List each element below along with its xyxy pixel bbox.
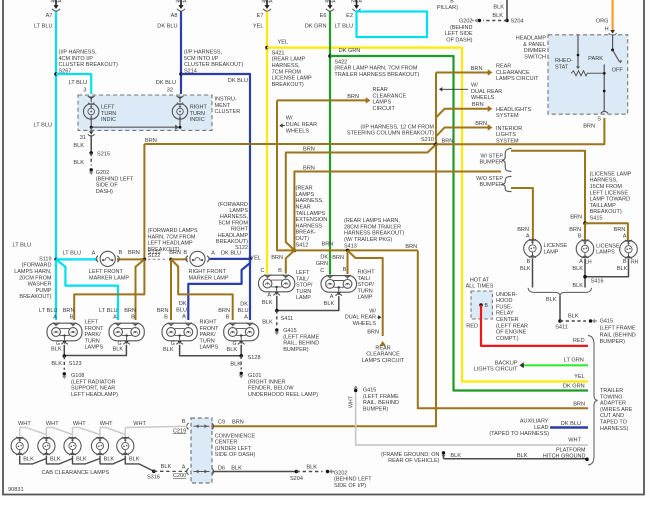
svg-text:A: A [113,315,117,321]
svg-text:LAMP TOWARD: LAMP TOWARD [590,197,630,203]
splice S215 [89,151,93,155]
svg-text:HARNESS: HARNESS [296,223,323,229]
svg-text:REAR: REAR [496,64,511,70]
svg-text:(LEFT REAR: (LEFT REAR [496,323,528,329]
svg-text:HOT AT: HOT AT [470,277,490,283]
svg-text:C219: C219 [173,428,186,434]
wire BRN S412 to left tail lamp pin B [286,250,295,273]
svg-text:LAMPS HARN,: LAMPS HARN, [14,269,52,275]
dashed BLK S204 to G202 [296,471,322,473]
svg-text:WHEELS: WHEELS [353,321,377,327]
svg-text:LEFT FRONT: LEFT FRONT [89,269,123,275]
top connector E2 (LT BLU feed) [356,0,358,6]
svg-text:PUMP: PUMP [36,288,52,294]
svg-text:DASH): DASH) [96,189,113,195]
rheostat riser [577,35,579,66]
svg-text:EXTENSION: EXTENSION [296,217,328,223]
svg-text:S316: S316 [147,475,160,481]
svg-text:BRN: BRN [367,330,379,336]
svg-text:HOOD: HOOD [496,298,513,304]
svg-text:BREAKOUT): BREAKOUT) [590,209,622,215]
svg-text:BUMPER): BUMPER) [363,406,389,412]
svg-text:RH: RH [631,260,639,266]
wire BRN interior lights branch [436,128,490,137]
svg-text:B: B [278,268,282,274]
svg-text:REAR: REAR [373,87,388,93]
svg-text:FENDER, BELOW: FENDER, BELOW [248,386,294,392]
ground G415 right (left frame rail behind bumper) [589,319,592,322]
svg-text:NEAR: NEAR [296,205,311,211]
svg-text:A: A [623,234,627,240]
svg-text:BLK: BLK [129,457,140,463]
top connector E7 (YEL feed) [266,0,268,6]
svg-text:BLK: BLK [450,453,461,459]
svg-text:HARNESS,: HARNESS, [590,178,619,184]
svg-text:RIGHT: RIGHT [358,270,376,276]
svg-text:CLEARANCE: CLEARANCE [366,352,400,358]
svg-text:(RIGHT INNER: (RIGHT INNER [248,379,286,385]
svg-text:W/O STEP: W/O STEP [476,176,503,182]
svg-text:BRN: BRN [303,147,315,153]
svg-text:RAIL, BEHIND: RAIL, BEHIND [363,400,399,406]
node DK BLU at marker row [248,257,252,261]
left front park/turn lamp 2 [109,323,144,341]
svg-text:AUXILIARY: AUXILIARY [520,419,549,425]
svg-text:B: B [485,303,489,309]
wire BRN down to S122 [143,144,145,259]
svg-text:(WIRES ARE: (WIRES ARE [600,407,633,413]
svg-text:B: B [182,419,186,425]
svg-text:BRN: BRN [475,121,487,127]
wire BLK license LH down to S416 [584,259,586,288]
splice S412 [293,249,297,253]
splice S123 [63,354,67,358]
wire WHT cab lamp feed chain [19,427,21,436]
svg-text:CENTER: CENTER [215,440,238,446]
trailer towing adapter brace [588,336,598,466]
svg-text:BRN: BRN [321,242,333,248]
wire BRN headlights system branch [436,109,490,118]
svg-text:BRN: BRN [613,227,625,233]
svg-text:E7: E7 [257,13,264,19]
svg-text:BRN: BRN [271,255,283,261]
wire LT BLU S119 down to left park lamp A [55,259,57,320]
condition arrow w/ dual rear wheels (left) [280,125,285,127]
svg-text:RIGHT FRONT: RIGHT FRONT [189,269,227,275]
svg-text:B: B [183,250,187,256]
splice S416 [583,275,587,279]
svg-text:B: B [131,315,135,321]
svg-text:NCA: NCA [176,0,187,5]
svg-text:LH: LH [585,259,592,265]
switch internal: feed from pin H [612,35,614,50]
ground G202 behind left side of I/P [326,470,329,473]
svg-text:INTERIOR: INTERIOR [496,126,522,132]
svg-text:BLK: BLK [493,5,504,11]
svg-text:4CM INTO I/P: 4CM INTO I/P [59,56,94,62]
svg-text:WASHER: WASHER [28,282,52,288]
svg-text:BRN: BRN [169,250,181,256]
svg-text:BRN: BRN [570,215,582,221]
svg-text:CIRCUIT: CIRCUIT [373,106,396,112]
svg-text:BLK: BLK [520,266,531,272]
svg-text:LT BLU: LT BLU [63,250,81,256]
svg-text:BLK: BLK [568,314,579,320]
svg-text:LICENSE: LICENSE [544,243,568,249]
svg-text:WHT: WHT [46,421,59,427]
svg-text:BRN: BRN [472,102,484,108]
svg-text:BRN: BRN [157,308,169,314]
svg-text:20CM FROM: 20CM FROM [19,275,52,281]
svg-text:SIDE OF I/P): SIDE OF I/P) [334,483,366,489]
wire DK BLU detour to park lamp 3 pin A [188,259,250,320]
svg-text:FRONT: FRONT [85,326,105,332]
svg-text:BRN: BRN [347,94,359,100]
condition arrow w/ dual rear wheels (bottom) [378,316,381,318]
svg-text:15CM FROM: 15CM FROM [590,184,623,190]
svg-text:YEL: YEL [253,24,264,30]
svg-text:G202: G202 [96,170,109,176]
svg-text:G108: G108 [71,373,84,379]
svg-text:CLEARANCE: CLEARANCE [496,70,530,76]
right front park/turn lamp 3 [162,323,197,341]
svg-text:LT BLU: LT BLU [39,308,57,314]
cluster pin 31 connector [90,127,92,130]
underhood fuse-relay center dashed box [471,291,492,319]
splice S214 [179,72,183,76]
svg-text:HEADLAMP: HEADLAMP [218,233,249,239]
license lamp LH [576,240,594,258]
svg-text:E2: E2 [346,13,353,19]
wire LT GRN backup lights to trailer adapter [521,364,588,366]
svg-text:DK GRN: DK GRN [563,383,585,389]
svg-text:INDIC: INDIC [190,117,205,123]
svg-text:LAMPS: LAMPS [85,345,104,351]
svg-text:RHEO-: RHEO- [555,58,573,64]
svg-text:G202: G202 [334,470,347,476]
svg-text:SIDE OF DASH): SIDE OF DASH) [215,452,256,458]
svg-text:(FORWARD: (FORWARD [218,202,248,208]
wire BLK park lamp1 ground to S123 [63,345,65,356]
svg-text:BRN: BRN [405,244,417,250]
connector cup at switch pin H [610,30,615,34]
svg-text:BLK: BLK [517,453,528,459]
right turn indicator lamp [179,97,181,103]
svg-text:BUMPER): BUMPER) [600,339,626,345]
dashed BLK to G108 [63,356,65,370]
svg-text:B: B [623,259,627,265]
svg-text:BLK: BLK [113,347,124,353]
svg-text:G415: G415 [600,319,613,325]
platform hitch ground wire [442,451,445,454]
svg-text:S128: S128 [248,355,261,361]
wire BRN corner down to trailer BRN [418,250,588,408]
wire BRN w/o step bumper to license lamp [511,188,533,240]
svg-text:ADAPTER: ADAPTER [600,401,626,407]
svg-text:BLK: BLK [324,301,335,307]
svg-text:OUT): OUT) [296,236,310,242]
svg-text:RED: RED [573,338,585,344]
svg-text:TAIL/: TAIL/ [358,276,371,282]
splice S267 on LT BLU [54,72,58,76]
svg-text:TURN: TURN [101,111,116,117]
svg-text:REAR OF VEHICLE): REAR OF VEHICLE) [388,458,440,464]
svg-text:CLUSTER BREAKOUT): CLUSTER BREAKOUT) [59,62,118,68]
wire BRN S413 to rear clearance arrow (bottom) [348,250,383,336]
dashed BLK S316 to C200 [154,470,187,472]
svg-text:(UNDER LEFT: (UNDER LEFT [215,446,252,452]
svg-text:FUSE-: FUSE- [496,304,513,310]
svg-text:ALL TIMES: ALL TIMES [466,284,494,290]
svg-text:(LEFT RADIATOR: (LEFT RADIATOR [71,379,116,385]
svg-text:(BEHIND: (BEHIND [450,25,473,31]
svg-text:INDIC: INDIC [101,117,116,123]
svg-text:HARNESS BREAKOUT): HARNESS BREAKOUT) [344,231,404,237]
svg-text:G101: G101 [248,373,261,379]
svg-text:TURN: TURN [85,338,100,344]
condition arrow w/ dual rear wheels (right) [440,88,468,90]
svg-text:S210: S210 [421,137,434,143]
svg-text:31: 31 [80,135,86,141]
svg-text:A8: A8 [171,13,178,19]
svg-text:LAMPS: LAMPS [229,208,248,214]
svg-text:BUMPER): BUMPER) [283,347,309,353]
splice S210 [434,143,438,147]
svg-text:BLK: BLK [230,361,241,367]
svg-text:LEFT: LEFT [296,270,310,276]
svg-text:(LEFT FRAME: (LEFT FRAME [600,326,636,332]
wire BLK park lamp4 ground to S128 [240,345,242,356]
svg-text:REAR: REAR [375,345,390,351]
ground G202 behind left side of dash [90,168,93,171]
svg-text:TAIL/: TAIL/ [296,276,309,282]
svg-text:LT BLU: LT BLU [69,80,87,86]
svg-text:S416: S416 [591,278,604,284]
svg-text:SYSTEM: SYSTEM [496,113,519,119]
wire RED fuse to trailer adapter [481,305,588,346]
svg-text:PILLAR): PILLAR) [437,5,458,11]
svg-text:H: H [605,27,609,33]
ground G415 left frame rail (bottom mid) [354,389,357,392]
svg-text:LIGHTS: LIGHTS [496,132,516,138]
right front park/turn lamp 4 [224,323,259,341]
svg-text:YEL: YEL [250,255,261,261]
svg-text:HARNESS): HARNESS) [600,426,629,432]
svg-text:BRN: BRN [303,165,315,171]
svg-text:7CM FROM: 7CM FROM [272,69,302,75]
svg-text:SIDE OF: SIDE OF [96,183,119,189]
svg-text:BLK: BLK [546,297,557,303]
svg-text:A: A [211,250,215,256]
svg-text:C: C [320,268,324,274]
svg-text:(LEFT FRAME: (LEFT FRAME [363,394,399,400]
svg-text:A: A [526,234,530,240]
svg-text:TURN: TURN [296,289,311,295]
svg-text:HARNESS,: HARNESS, [272,63,301,69]
splice S415 [583,221,587,225]
wire BRN S210 right to headlamp switch pin S [436,118,604,144]
svg-text:S119: S119 [39,256,51,262]
wire DK BLU node to right marker lamp pin A [209,258,250,260]
svg-text:BLK: BLK [231,465,242,471]
svg-text:(REAR LAMP HARN, 7CM FROM: (REAR LAMP HARN, 7CM FROM [334,66,417,72]
svg-text:LT GRN: LT GRN [564,357,584,363]
svg-text:BLK: BLK [73,160,84,166]
wire DK BLU auxiliary lead [550,426,588,429]
svg-text:D6: D6 [218,465,225,471]
svg-text:LAMPS: LAMPS [296,192,315,198]
cluster pin 3 connector [88,96,95,98]
svg-text:S411: S411 [281,316,294,322]
svg-text:SWITCH: SWITCH [524,54,546,60]
svg-text:E6: E6 [320,13,327,19]
svg-text:90831: 90831 [8,487,24,493]
svg-text:S204: S204 [290,476,303,482]
svg-text:LIGHTS CIRCUIT: LIGHTS CIRCUIT [474,367,518,373]
wire LT BLU from A7 down left side to S119 [55,12,57,260]
svg-text:STEERING COLUMN BREAKOUT): STEERING COLUMN BREAKOUT) [347,131,434,137]
svg-text:BUMPER: BUMPER [479,160,503,166]
svg-text:(FORWARD LAMPS: (FORWARD LAMPS [148,228,198,234]
svg-text:S415: S415 [590,216,603,222]
svg-text:S123: S123 [69,361,82,367]
svg-text:BRN: BRN [583,124,595,130]
splice node right of S122 [169,258,173,262]
svg-text:STAT: STAT [555,64,569,70]
wire ORG from top to headlamp switch pin H [611,0,613,31]
svg-text:B: B [343,267,347,273]
svg-text:BLK: BLK [161,464,172,470]
svg-text:MENT: MENT [215,103,231,109]
switch blade to OFF [613,50,620,62]
svg-text:S413: S413 [344,243,357,249]
dashed BLK to G415 right [560,320,586,322]
svg-text:DK GRN: DK GRN [305,24,327,30]
svg-text:BLU: BLU [238,308,249,314]
svg-text:TAILLAMP: TAILLAMP [590,203,617,209]
ground G415 left tail [275,328,278,331]
splice S413 [346,249,350,253]
svg-text:RIGHT: RIGHT [200,320,218,326]
svg-text:RAIL (BEHIND: RAIL (BEHIND [600,332,636,338]
svg-text:BRN: BRN [332,255,344,261]
svg-text:LAMP: LAMP [296,295,311,301]
svg-text:BRN: BRN [569,227,581,233]
svg-text:CENTER: CENTER [496,317,519,323]
wire BRN S415 down to license lamp LH [584,223,586,239]
wire YEL from E7 down to left tail lamp pin C [266,12,268,274]
svg-text:NCA: NCA [51,0,62,5]
svg-text:BRN: BRN [471,66,483,72]
svg-text:28CM FROM TRAILER: 28CM FROM TRAILER [344,224,401,230]
wire BRN rear clearance feed (left) with arrow [277,99,368,101]
wire DK BLU from A8 to cluster pin 32 [180,12,182,95]
svg-text:A: A [53,315,57,321]
svg-text:(I/P HARNESS, 12 CM FROM: (I/P HARNESS, 12 CM FROM [360,124,434,130]
svg-text:NCA: NCA [351,0,362,5]
svg-text:5CM INTO I/P: 5CM INTO I/P [184,56,219,62]
svg-text:LEFT HEADLAMP): LEFT HEADLAMP) [71,392,118,398]
svg-text:BLK: BLK [227,347,238,353]
wire DK BLU S214 branch right and down [181,74,250,259]
cluster return bus [90,119,92,127]
svg-text:WHT: WHT [18,421,31,427]
svg-text:WHT: WHT [349,395,355,408]
svg-text:ORG: ORG [596,18,609,24]
svg-text:HEADLIGHTS: HEADLIGHTS [496,107,531,113]
svg-text:BRN: BRN [145,138,157,144]
dashed BLK S215 to G202 [90,153,92,166]
license lamp (left, w/o step bumper) [524,240,542,258]
svg-text:W/: W/ [286,116,293,122]
svg-text:B: B [119,250,123,256]
wire BLK last cab lamp to S316 [125,459,154,472]
left tail/stop/turn lamp [259,275,295,292]
svg-text:HARNESS,: HARNESS, [220,214,249,220]
svg-text:BREAKOUT): BREAKOUT) [216,239,248,245]
gather brace for license grounds [528,288,592,296]
svg-text:A: A [579,259,583,265]
svg-text:A: A [182,465,186,471]
svg-text:BREAKOUT): BREAKOUT) [272,82,304,88]
wire BRN w/ step bumper to S415 [511,151,585,223]
svg-text:PLATFORM: PLATFORM [556,447,586,453]
svg-text:(TAPED TO HARNESS): (TAPED TO HARNESS) [489,431,549,437]
svg-text:DUAL REAR: DUAL REAR [286,122,317,128]
svg-text:STOP/: STOP/ [358,282,375,288]
wire BLK right tail lamp ground joins [277,296,339,310]
license lamp RH [620,240,638,258]
splice S422 [328,54,332,58]
svg-text:MARKER LAMP: MARKER LAMP [189,275,229,281]
wire WHT from G415 to trailer adapter [356,393,588,446]
svg-text:G415: G415 [283,328,296,334]
wire LT BLU S267 branch to cluster pin 3 [56,74,91,94]
ground G101 [240,372,243,375]
svg-text:(REAR: (REAR [296,186,313,192]
wire BRN node down to park lamp3 pin B [170,259,172,320]
wire LT BLU S119 to left front marker lamp pin A [56,258,98,260]
wire BRN node to right marker lamp pin B [171,258,187,260]
svg-text:LAMPS CIRCUIT: LAMPS CIRCUIT [362,358,405,364]
splice S204 bottom [295,470,299,474]
wire BLK license left down to gather brace [532,258,534,287]
svg-text:NCA: NCA [262,0,273,5]
brace step bumper options [502,148,512,171]
wire BRN S413 down to right tail lamp pin B [347,250,349,274]
svg-text:(FORWARD: (FORWARD [22,263,52,269]
svg-text:LICENSE LAMP: LICENSE LAMP [272,76,312,82]
splice S411 left [275,309,279,313]
instrument cluster dashed box [78,95,212,130]
right front marker lamp [190,251,205,266]
svg-text:LT BLU: LT BLU [13,243,31,249]
splice S204 top [505,19,509,23]
svg-text:TURN: TURN [190,111,205,117]
svg-text:FRONT: FRONT [200,326,220,332]
svg-text:LAMP: LAMP [358,295,373,301]
svg-text:A: A [182,314,186,320]
svg-text:LAMPS: LAMPS [596,250,615,256]
svg-text:RED: RED [466,324,478,330]
svg-text:BRN: BRN [124,308,136,314]
svg-text:BLK: BLK [572,283,583,289]
headlamp and panel dimmer switch dashed box [548,35,628,114]
svg-text:W/: W/ [471,83,478,89]
svg-text:LT BLU: LT BLU [34,123,52,129]
dashed link between S122 splices [148,258,168,260]
svg-text:S122: S122 [148,253,161,259]
